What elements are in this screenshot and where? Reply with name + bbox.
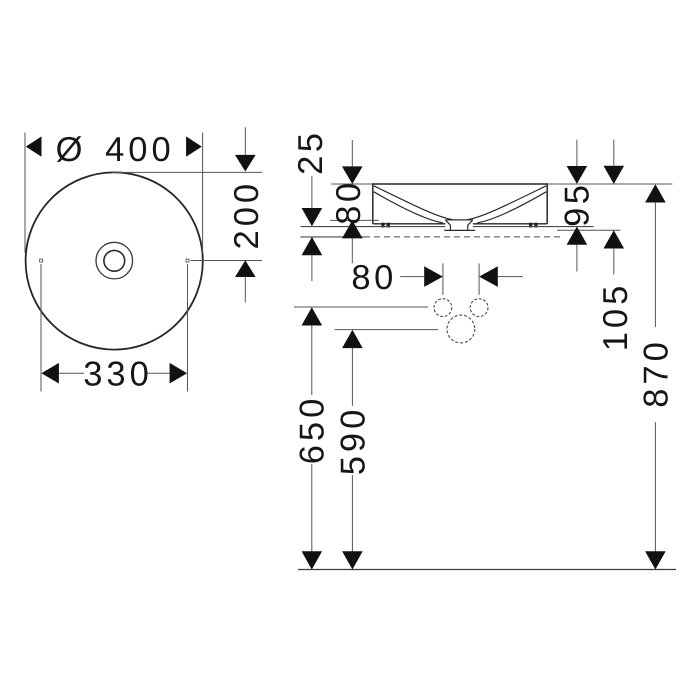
dim 200 arrow up	[235, 260, 256, 277]
drain inner circle	[104, 250, 125, 271]
drain top line	[445, 219, 473, 221]
dim 870 upper tail	[654, 202, 656, 327]
countertop underside dashed part	[364, 236, 564, 238]
dim 330 arrow left	[41, 363, 59, 384]
basin outline circle (top view)	[26, 172, 203, 349]
mounting clip left	[381, 223, 384, 228]
drain hole large (dashed)	[447, 315, 475, 343]
svg-text:590: 590	[334, 406, 372, 476]
dim Ø400 extension line left	[24, 133, 26, 254]
floor line	[298, 569, 676, 571]
dim 105 arrow up	[604, 230, 625, 248]
dim 80 vertical top tail	[351, 140, 353, 167]
dim 590 arrow up	[342, 330, 363, 348]
dim 80 vertical bottom tail	[351, 238, 353, 263]
dim 330 extension line left	[40, 264, 42, 392]
basin rim top edge	[372, 183, 548, 185]
dim 330 line left stub	[59, 372, 84, 374]
dim 25 line top	[311, 176, 313, 209]
dim 590 arrow down	[342, 551, 363, 569]
basin right wall	[546, 184, 548, 224]
basin bottom left segment	[373, 223, 446, 225]
dim 105 bottom tail	[613, 248, 615, 274]
dim 105 arrow down	[604, 166, 625, 184]
dim 80 holes extension right	[478, 263, 480, 295]
bowl curve right outer	[467, 186, 546, 220]
rim top extension line	[331, 183, 672, 185]
dim 80 holes arrow left	[479, 266, 498, 287]
svg-text:80: 80	[330, 179, 368, 224]
dim 95 bottom tail	[576, 244, 578, 271]
bowl curve left inner	[374, 192, 443, 223]
dim 330 arrow right	[170, 363, 188, 384]
faucet hole right (dashed)	[470, 299, 488, 317]
basin left wall	[372, 184, 374, 224]
dim 200 line bottom tail	[244, 277, 246, 303]
dim 650 lower tail	[311, 464, 313, 552]
svg-text:Ø: Ø	[56, 131, 83, 169]
dim 25 arrow up	[302, 237, 323, 255]
dim 650 extension line	[294, 306, 428, 308]
svg-text:650: 650	[294, 395, 332, 465]
drain left wall	[446, 220, 451, 230]
dim 200 line top tail	[244, 127, 246, 156]
mounting clip right	[529, 223, 532, 228]
dim 590 upper tail	[351, 348, 353, 406]
dim 80 holes arrow right	[424, 266, 443, 287]
dim 650 arrow up	[302, 307, 323, 325]
dim Ø400 arrow left	[26, 136, 42, 156]
dim 95 top tail	[576, 140, 578, 166]
svg-text:870: 870	[637, 338, 675, 408]
svg-text:25: 25	[292, 130, 330, 175]
dim 105 top tail	[613, 140, 615, 166]
dim 25 line bottom	[311, 255, 313, 282]
countertop surface line	[301, 226, 446, 228]
svg-text:400: 400	[105, 131, 175, 169]
dim Ø400 extension line right	[202, 133, 204, 254]
svg-text:200: 200	[228, 180, 266, 250]
dim 590 lower tail	[351, 475, 353, 552]
dim 590 extension line	[335, 329, 439, 331]
extension line for 80 vertical	[330, 219, 379, 221]
reference dot right	[186, 259, 189, 262]
dim 80 holes right tail	[498, 276, 523, 278]
dim 80 vertical arrow up	[342, 220, 363, 238]
bowl curve left outer	[374, 186, 453, 220]
svg-text:80: 80	[351, 259, 396, 297]
drain bottom flange	[444, 229, 475, 231]
dim 330 line right stub	[146, 372, 170, 374]
dim 200 extension line (circle top)	[112, 171, 262, 173]
dim Ø400 arrow right	[186, 136, 202, 156]
dim 80 holes extension left	[442, 263, 444, 295]
countertop underside solid part	[301, 236, 365, 238]
drain right wall	[468, 220, 473, 230]
svg-text:105: 105	[597, 282, 635, 352]
dim 870 lower tail	[654, 422, 656, 552]
basin bottom right segment	[473, 223, 547, 225]
faucet hole left (dashed)	[434, 299, 452, 317]
dim 200 arrow down	[235, 155, 256, 172]
drain outer circle	[96, 242, 133, 279]
dim 200 extension line (circle center)	[191, 260, 263, 262]
dim 25 arrow down	[302, 208, 323, 226]
dim 870 arrow up	[645, 184, 666, 202]
dim 80 vertical arrow down	[342, 166, 363, 184]
dim 80 holes left tail	[400, 276, 424, 278]
extension line for 95/105	[557, 229, 621, 231]
svg-text:330: 330	[83, 356, 153, 394]
dim 650 arrow down	[302, 551, 323, 569]
dim 95 arrow up	[567, 227, 588, 245]
dim 95 arrow down	[567, 166, 588, 184]
dim 330 extension line right	[187, 264, 189, 392]
dim 650 upper tail	[311, 325, 313, 395]
reference dot left	[40, 259, 43, 262]
svg-text:95: 95	[559, 182, 597, 227]
bowl curve right inner	[477, 192, 546, 223]
dim 870 arrow down	[645, 551, 666, 569]
